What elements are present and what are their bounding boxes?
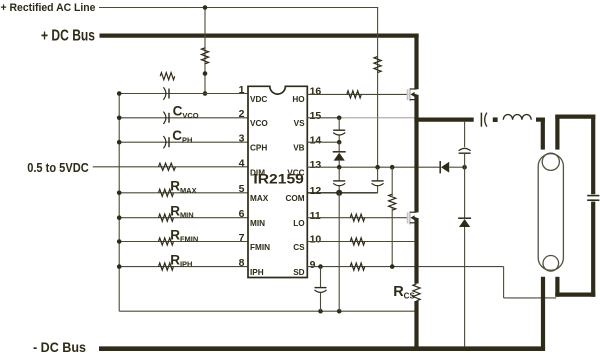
svg-text:- DC Bus: - DC Bus (33, 340, 86, 353)
wire pin14 VB row (307, 141, 339, 143)
capacitor CVCO (163, 112, 166, 124)
junction left bus RMAX row (117, 191, 122, 196)
capacitor CVCC decoupling (338, 167, 340, 181)
wire VDC supply column from AC line (204, 8, 206, 94)
wire thick DC rail down segment 4 (414, 301, 418, 348)
wire SD sense to lamp cathode (504, 297, 557, 299)
transistor Q2 low-side MOSFET (408, 212, 417, 225)
wire lamp top-right over to right branch (555, 114, 595, 118)
svg-text:HO: HO (292, 95, 305, 104)
svg-text:9: 9 (310, 259, 316, 271)
wire SD pull column upper (391, 167, 393, 196)
svg-text:5: 5 (239, 183, 245, 195)
wire pin row for RFMIN (119, 241, 248, 243)
wire VCC startup column from AC line (377, 8, 379, 168)
wire snubber column upper (464, 122, 466, 148)
svg-text:VB: VB (293, 144, 304, 153)
svg-text:10: 10 (310, 234, 322, 246)
wire bootstrap diode to VCC row (338, 161, 340, 168)
svg-text:4: 4 (239, 157, 245, 169)
junction snubber node on VCC row (462, 165, 467, 170)
wire rectified AC line horizontal (99, 7, 378, 9)
wire CVCC to COM row (338, 186, 340, 193)
svg-text:MIN: MIN (250, 219, 265, 228)
wire VCC storage cap to COM row end (377, 186, 379, 193)
resistor LO gate (350, 214, 365, 221)
resistor RMIN (159, 214, 174, 221)
svg-text:16: 16 (310, 86, 322, 98)
svg-text:12: 12 (310, 185, 322, 197)
resistor RIPH (159, 263, 174, 270)
resistor RFMIN (159, 238, 174, 245)
svg-text:15: 15 (310, 110, 322, 122)
inductor resonant (503, 114, 531, 119)
resistor SD series (350, 263, 365, 270)
capacitor DC blocking at half-bridge (480, 113, 482, 127)
wire SD cap to bottom wire (320, 293, 322, 311)
junction left bus RIPH row (117, 264, 122, 269)
resistor SD pull (vertical) (389, 194, 396, 210)
wire pin1 VDC row (119, 93, 248, 95)
wire bootstrap column VS to CB (338, 118, 340, 130)
capacitor CB bootstrap (333, 129, 345, 131)
wire left ground bus vertical (118, 94, 120, 312)
svg-text:FMIN: FMIN (250, 243, 270, 252)
svg-text:2: 2 (239, 108, 245, 120)
wire right branch bottom to lamp (555, 293, 595, 297)
wire pin2 VCO row (119, 117, 248, 119)
op-amp U1 IC IR2159 body (248, 86, 307, 277)
junction left bus VCO row (117, 116, 122, 121)
diode charge-pump lower (points up) (458, 217, 471, 219)
junction left bus pin1 row (117, 91, 122, 96)
wire pin row for RMAX (119, 192, 248, 194)
wire lamp top-left lead (541, 118, 545, 150)
wire pin row for RMIN (119, 217, 248, 219)
wire pin10 CS row (307, 241, 414, 243)
wire inductor to lamp thick (536, 117, 545, 121)
svg-text:COM: COM (285, 194, 304, 203)
resistor CS filter (350, 238, 365, 245)
junction VCC / bootstrap column (337, 165, 342, 170)
wire COM ground column down to bottom wire (338, 193, 340, 311)
wire thick DC rail down segment 1 (414, 34, 418, 90)
lamp top filament (542, 153, 559, 170)
junction COM / ground column (336, 190, 342, 196)
svg-text:CS: CS (293, 243, 305, 252)
wire thick DC rail down segment 2 (414, 95, 418, 213)
junction below VDC resistor (203, 71, 208, 76)
wire snubber node down to charge pump diode (464, 167, 466, 218)
capacitor lamp parallel (587, 195, 599, 197)
wire pin16 HO row to gate resistor (307, 93, 408, 95)
wire pin11 LO row to gate resistor (307, 217, 407, 219)
wire right branch vertical lower (591, 202, 595, 297)
wire CB to VB row (338, 135, 340, 142)
capacitor CPH (163, 136, 166, 148)
svg-text:7: 7 (239, 232, 245, 244)
junction SD cap tap (318, 264, 323, 269)
capacitor SD filter (320, 267, 322, 288)
junction VCC / SD pull column (390, 165, 395, 170)
resistor VDC supply (vertical) (201, 48, 208, 64)
diode bootstrap DBS (333, 151, 346, 153)
power -DC bus rail (99, 346, 545, 351)
svg-text:DIM: DIM (250, 168, 265, 177)
capacitor snubber (459, 152, 471, 154)
svg-text:11: 11 (310, 210, 321, 222)
transistor Q1 high-side MOSFET (408, 88, 417, 101)
wire half-bridge output thick (414, 117, 473, 121)
capacitor on VDC row (163, 87, 166, 99)
svg-text:6: 6 (239, 208, 245, 220)
wire bottom signal-ground return (119, 310, 416, 312)
svg-text:3: 3 (239, 133, 245, 145)
wire SD pull column lower (391, 208, 393, 266)
wire charge-pump diode to snubber node (449, 166, 464, 168)
svg-text:VCC: VCC (287, 168, 304, 177)
capacitor VCC storage (377, 167, 379, 181)
wire lamp top-right lead (555, 115, 559, 150)
svg-text:0.5 to 5VDC: 0.5 to 5VDC (27, 160, 89, 175)
svg-text:8: 8 (239, 257, 245, 269)
svg-text:13: 13 (310, 159, 322, 171)
wire pin4 DIM row (93, 166, 248, 168)
resistor VCC startup (vertical) (374, 57, 381, 73)
junction AC line / VDC column (203, 5, 208, 10)
resistor on DIM row (159, 163, 176, 170)
junction VDC column on pin1 wire (203, 91, 208, 96)
svg-text:14: 14 (310, 134, 322, 146)
wire pin12 COM row (307, 192, 377, 194)
svg-text:VDC: VDC (250, 95, 267, 104)
svg-text:+ Rectified AC Line: + Rectified AC Line (1, 2, 96, 14)
wire VB to bootstrap diode (338, 142, 340, 151)
junction left bus RMIN row (117, 215, 122, 220)
junction left bus RFMIN row (117, 239, 122, 244)
wire lamp bottom-right lead (555, 277, 559, 297)
wire snubber cap to VCC node (464, 153, 466, 167)
wire pin row for RIPH (119, 266, 248, 268)
svg-text:IPH: IPH (250, 268, 264, 277)
junction VB row / bootstrap column (337, 140, 342, 145)
diode charge-pump to VCC (points left) (439, 161, 441, 173)
wire pin3 CPH row (119, 141, 248, 143)
wire SD sense down to lamp (503, 267, 505, 298)
svg-text:1: 1 (239, 84, 245, 96)
junction square resonant node (493, 117, 498, 122)
junction VS / bootstrap column (337, 116, 342, 121)
wire pin13 VCC row (307, 166, 440, 168)
wire VS to half-bridge faint (339, 117, 414, 119)
resistor HO gate (347, 91, 362, 98)
wire right branch vertical upper (591, 115, 595, 195)
junction SD pull column / SD row (390, 264, 395, 269)
lamp bottom filament (543, 255, 559, 271)
junction SD capacitor at bottom wire (318, 309, 323, 314)
junction left bus CPH row (117, 140, 122, 145)
junction VCC / startup column (375, 165, 380, 170)
resistor RMAX (159, 189, 174, 196)
wire pin9 SD row (307, 266, 503, 268)
resistor parallel above VDC capacitor (160, 73, 175, 80)
svg-text:VS: VS (294, 119, 305, 128)
wire lamp bottom-left lead to -bus (541, 277, 545, 349)
junction COM column at bottom wire (337, 309, 342, 314)
svg-text:CPH: CPH (250, 144, 267, 153)
svg-text:SD: SD (293, 268, 304, 277)
svg-text:MAX: MAX (250, 194, 269, 203)
svg-text:LO: LO (293, 219, 305, 228)
lamp fluorescent tube body (538, 154, 563, 271)
svg-text:VCO: VCO (250, 119, 268, 128)
wire charge pump to -bus (464, 227, 466, 346)
svg-text:+ DC Bus: + DC Bus (41, 28, 95, 45)
wire thick DC rail down segment 3 (414, 218, 418, 284)
wire pin15 VS row (307, 117, 339, 119)
resistor RCS current sense (vertical) (413, 284, 420, 301)
power +DC bus rail (100, 33, 419, 37)
